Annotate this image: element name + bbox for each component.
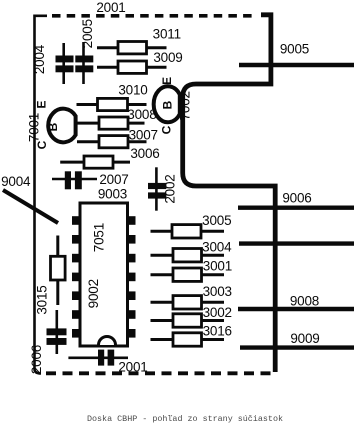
resistor R3007 bbox=[77, 136, 147, 148]
label 3010 bbox=[118, 83, 147, 98]
svg-text:9002: 9002 bbox=[86, 279, 101, 308]
label 3004 bbox=[202, 240, 232, 255]
svg-text:3011: 3011 bbox=[153, 27, 181, 42]
IC left pins bbox=[72, 216, 80, 337]
svg-text:E: E bbox=[160, 77, 174, 85]
svg-text:B: B bbox=[161, 100, 175, 109]
label 3008 bbox=[127, 107, 156, 122]
capacitor C2001 bbox=[68, 350, 128, 366]
svg-text:2006: 2006 bbox=[29, 345, 44, 374]
label 2001 top bbox=[96, 0, 125, 15]
resistor R3004 bbox=[151, 249, 225, 262]
label 9009 bbox=[290, 331, 319, 346]
resistor R3016 bbox=[151, 333, 225, 346]
capacitor C2006 bbox=[47, 310, 67, 354]
svg-text:9003: 9003 bbox=[98, 187, 127, 202]
pin E of 7001 bbox=[34, 100, 48, 108]
svg-text:2007: 2007 bbox=[99, 172, 128, 187]
svg-text:3005: 3005 bbox=[202, 213, 231, 228]
wire 9004 diagonal bbox=[3, 190, 58, 223]
label 9005 bbox=[280, 42, 309, 57]
resistor R3001 bbox=[151, 268, 225, 281]
svg-text:3004: 3004 bbox=[202, 240, 232, 255]
label 2005 bbox=[80, 19, 95, 48]
pin C of 7002 bbox=[160, 125, 174, 134]
resistor R3003 bbox=[151, 296, 225, 309]
svg-text:3015: 3015 bbox=[35, 285, 50, 314]
label 3002 bbox=[203, 305, 232, 320]
label 9002 bbox=[86, 279, 101, 308]
pin B of 7002 bbox=[161, 100, 175, 109]
resistor R3006 bbox=[60, 156, 130, 168]
resistor R3009 bbox=[97, 61, 167, 73]
resistor R3002 bbox=[151, 314, 225, 327]
label 2001 bottom bbox=[118, 360, 147, 375]
label 9008 bbox=[290, 294, 319, 309]
svg-text:9009: 9009 bbox=[290, 331, 319, 346]
resistor R3015 vertical bbox=[51, 236, 66, 306]
pin C of 7001 bbox=[35, 140, 49, 149]
capacitor C2002 bbox=[148, 167, 166, 210]
svg-text:9004: 9004 bbox=[1, 174, 31, 189]
pin B of 7001 bbox=[46, 122, 60, 131]
label 9003 bbox=[98, 187, 127, 202]
capacitor C2007 bbox=[52, 171, 97, 189]
wire 9005 bbox=[239, 63, 354, 67]
wire 9008 bbox=[238, 307, 354, 311]
IC notch bbox=[99, 337, 116, 346]
label 3016 bbox=[203, 324, 232, 339]
wire main right bus bbox=[183, 15, 276, 372]
label 2007 bbox=[99, 172, 128, 187]
svg-text:9008: 9008 bbox=[290, 294, 319, 309]
resistor R3005 bbox=[151, 225, 225, 238]
svg-text:2004: 2004 bbox=[32, 44, 47, 74]
label 3003 bbox=[203, 284, 232, 299]
wire 9006 bbox=[238, 205, 354, 209]
transistor Q7002 bbox=[154, 86, 180, 122]
svg-text:3010: 3010 bbox=[118, 83, 147, 98]
label 7051 bbox=[91, 223, 106, 252]
label 3001 bbox=[203, 259, 232, 274]
IC right pins bbox=[128, 216, 136, 337]
resistor R3011 bbox=[97, 42, 167, 54]
label 3007 bbox=[129, 128, 158, 143]
svg-text:7051: 7051 bbox=[91, 223, 106, 252]
label 3009 bbox=[153, 50, 182, 65]
svg-text:2001: 2001 bbox=[118, 360, 147, 375]
label 3005 bbox=[202, 213, 231, 228]
label 9006 bbox=[282, 191, 311, 206]
capacitor C2004 bbox=[56, 43, 74, 84]
pin E of 7002 bbox=[160, 77, 174, 85]
wire 9009 bbox=[240, 345, 354, 349]
label 3011 bbox=[153, 27, 181, 42]
svg-text:3001: 3001 bbox=[203, 259, 232, 274]
caption bbox=[87, 414, 283, 424]
svg-text:2005: 2005 bbox=[80, 19, 95, 48]
board outline left edge and corners bbox=[35, 16, 48, 374]
svg-text:7002: 7002 bbox=[177, 91, 192, 120]
svg-text:9005: 9005 bbox=[280, 42, 309, 57]
svg-text:2002: 2002 bbox=[163, 174, 178, 203]
board outline top dashed border bbox=[52, 14, 257, 18]
svg-text:3009: 3009 bbox=[153, 50, 182, 65]
svg-text:3007: 3007 bbox=[129, 128, 158, 143]
label 2002 bbox=[163, 174, 178, 203]
svg-text:3016: 3016 bbox=[203, 324, 232, 339]
svg-text:3006: 3006 bbox=[130, 146, 159, 161]
label 2006 bbox=[29, 345, 44, 374]
svg-text:3002: 3002 bbox=[203, 305, 232, 320]
IC U9002 body bbox=[80, 203, 128, 346]
svg-text:Doska CBHP - pohľad zo strany: Doska CBHP - pohľad zo strany súčiastok bbox=[87, 414, 283, 424]
svg-text:7001: 7001 bbox=[26, 113, 41, 142]
svg-text:B: B bbox=[46, 122, 60, 131]
svg-text:3003: 3003 bbox=[203, 284, 232, 299]
svg-text:C: C bbox=[160, 125, 174, 134]
label 3015 bbox=[35, 285, 50, 314]
label 7001 bbox=[26, 113, 41, 142]
board outline bottom dashed border bbox=[46, 371, 277, 375]
resistor R3010 bbox=[77, 98, 147, 110]
transistor Q7001 bbox=[48, 109, 75, 143]
svg-text:9006: 9006 bbox=[282, 191, 311, 206]
wire unlabeled stub bbox=[239, 241, 354, 245]
svg-text:2001: 2001 bbox=[96, 0, 125, 15]
label 7002 bbox=[177, 91, 192, 120]
label 9004 bbox=[1, 174, 31, 189]
capacitor C2005 bbox=[75, 42, 93, 84]
svg-text:E: E bbox=[34, 100, 48, 108]
resistor R3008 bbox=[77, 117, 145, 129]
label 2004 bbox=[32, 44, 47, 74]
label 3006 bbox=[130, 146, 159, 161]
